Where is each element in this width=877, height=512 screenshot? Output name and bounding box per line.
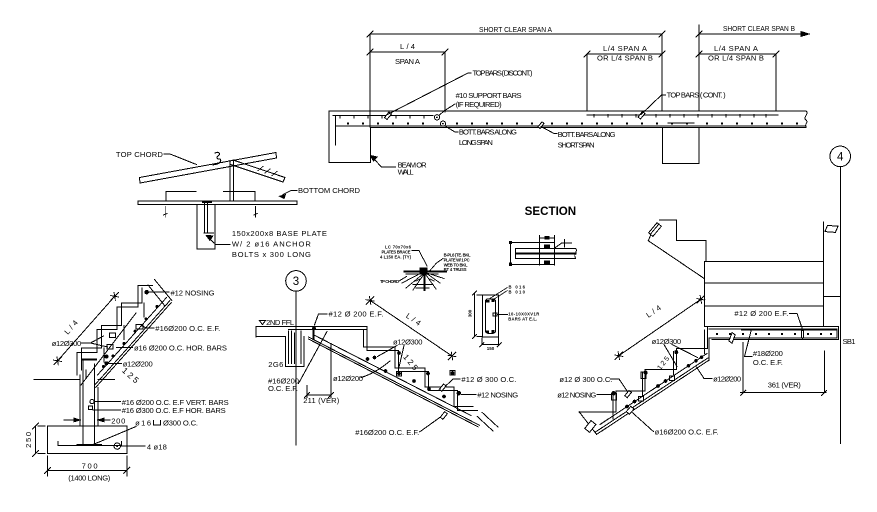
soffit inner: [309, 339, 479, 427]
top bar hook: [313, 327, 315, 338]
footing bottom bars: [58, 442, 122, 446]
svg-text:211 (VER): 211 (VER): [303, 396, 339, 405]
leaders 12-300 right: [664, 345, 698, 367]
svg-text:SHORT CLEAR SPAN B: SHORT CLEAR SPAN B: [723, 24, 795, 33]
svg-text:#16 Ø300 O.C. E.F HOR. BARS: #16 Ø300 O.C. E.F HOR. BARS: [122, 406, 226, 415]
dim 361 extensions: [743, 342, 824, 392]
leader nosing right: [597, 394, 611, 396]
svg-text:#18Ø200: #18Ø200: [753, 349, 783, 358]
nosing dot: [144, 290, 149, 295]
waist bar line: [313, 335, 471, 416]
anchor bolt tick left: [164, 207, 167, 218]
stirrup squares: [397, 372, 402, 377]
soffit outer line: [96, 303, 172, 388]
wall right edge: [823, 222, 825, 326]
leader 12-200: [109, 362, 122, 364]
dim line L/4: [619, 299, 701, 355]
waist bar dots: [366, 356, 455, 399]
waist bar dots: [625, 356, 703, 409]
column verticals: [540, 238, 555, 265]
svg-text:361 (VER): 361 (VER): [768, 381, 801, 390]
MIDDLE_STAIR: [256, 271, 518, 446]
waist bar line: [98, 298, 167, 376]
soffit inner line: [94, 301, 170, 386]
leader 18-200: [745, 331, 753, 357]
svg-text:WALL: WALL: [398, 167, 414, 176]
leader top bars discont: [387, 73, 472, 115]
svg-text:SPAN A: SPAN A: [395, 57, 421, 66]
svg-text:BOTTOM CHORD: BOTTOM CHORD: [298, 186, 361, 195]
slab top bar thick: [742, 329, 836, 331]
soffit outer: [309, 337, 480, 425]
joint small marks: [416, 279, 434, 281]
outer rect: [483, 295, 499, 337]
apex squiggle mark: [213, 152, 221, 165]
inner step zigzag: [363, 330, 473, 407]
svg-text:4 L150 EA. (TY): 4 L150 EA. (TY): [380, 255, 412, 260]
vertical post: [230, 161, 234, 201]
svg-text:L/4: L/4: [644, 303, 662, 319]
leader circle vert bars: [90, 400, 94, 404]
upper flight cut parallelogram: [649, 223, 662, 237]
leader bottom left note: [399, 277, 407, 282]
wall rebar verticals: [83, 360, 95, 445]
svg-text:ø16Ø200 O.C. E.F.: ø16Ø200 O.C. E.F.: [655, 428, 719, 437]
bar note text: [509, 285, 526, 295]
bolt head mark: [203, 201, 211, 203]
leader beam or wall: [374, 159, 396, 167]
member band: [515, 249, 575, 259]
svg-text:#16Ø200 O.C. E.F.: #16Ø200 O.C. E.F.: [155, 324, 220, 333]
level marker triangle: [260, 321, 266, 325]
bottom dim line: [480, 338, 501, 347]
svg-text:4 ø18: 4 ø18: [147, 442, 167, 451]
leader 4-18: [121, 445, 145, 447]
svg-text:TOP BARS ( CONT. ): TOP BARS ( CONT. ): [667, 91, 726, 100]
footing outline: [48, 426, 127, 454]
leader bott bars short: [541, 127, 557, 134]
svg-text:LONG SPAN: LONG SPAN: [459, 138, 493, 147]
svg-text:300: 300: [468, 309, 473, 317]
column strip bottom: [824, 296, 841, 298]
pedestal: [197, 205, 215, 249]
svg-text:#12 NOSING: #12 NOSING: [171, 288, 215, 297]
BEAM_PLAN_DETAIL: [509, 236, 576, 266]
leader from note: [412, 251, 427, 267]
svg-text:L/4: L/4: [400, 42, 415, 51]
extension line x662: [661, 34, 663, 111]
inner tie rounded rect: [485, 299, 495, 333]
note text right: [444, 253, 471, 273]
RIGHT_STAIR: [557, 220, 855, 437]
hatch on right diagonal: [258, 167, 277, 176]
svg-text:TP CHORD: TP CHORD: [380, 279, 399, 284]
svg-text:Ø300 O.C.: Ø300 O.C.: [163, 419, 198, 428]
slab bottom edge: [371, 126, 806, 128]
leader bottom chord: [283, 191, 297, 195]
svg-text:O.C. E.F.: O.C. E.F.: [753, 358, 783, 367]
svg-text:ø12 NOSING: ø12 NOSING: [557, 390, 596, 399]
landing top bar line: [289, 329, 367, 331]
wall left edge: [704, 261, 706, 326]
flight soffit outer: [597, 360, 709, 434]
top chord member: [140, 153, 277, 184]
top dim: [540, 236, 555, 241]
svg-text:ø12Ø300: ø12Ø300: [652, 337, 682, 346]
slab top edge: [329, 110, 806, 112]
member center line thick: [516, 252, 576, 254]
leader top chord: [164, 154, 197, 165]
tie note text: [508, 312, 539, 322]
cut break parallelogram: [585, 421, 596, 433]
dim line L/4 left: [367, 49, 448, 55]
SECTION_TITLE: [525, 206, 577, 218]
leader to top bars: [490, 288, 508, 301]
anchor bolt: [204, 204, 214, 234]
leader square a: [110, 333, 116, 338]
leader from right note: [430, 259, 443, 271]
leader hor bars2: [93, 409, 121, 411]
bottom bar line long span: [336, 125, 807, 127]
splice line over middle support: [668, 122, 694, 124]
dim line L/4 SPAN A middle: [584, 51, 665, 57]
note text top left: [380, 245, 412, 260]
dim line L/4 SPAN A right: [696, 51, 779, 57]
svg-text:#12 NOSING: #12 NOSING: [477, 391, 518, 400]
svg-text:SHORT SPAN: SHORT SPAN: [558, 141, 595, 150]
svg-text:O.C. E.F.: O.C. E.F.: [268, 384, 298, 393]
svg-text:ø12Ø200: ø12Ø200: [123, 359, 153, 368]
step stirrup verticals: [86, 303, 144, 378]
star bottom: [54, 357, 62, 365]
bar cut mark on cont top bars: [638, 112, 645, 120]
leader 16-200 left: [299, 332, 328, 384]
slab downstand: [708, 338, 710, 360]
svg-text:BOTT. BARS ALONG: BOTT. BARS ALONG: [459, 128, 517, 137]
dim line SHORT CLEAR SPAN B: [696, 31, 806, 37]
svg-text:SECTION: SECTION: [525, 206, 577, 218]
svg-text:(IF REQUIRED): (IF REQUIRED): [456, 100, 502, 109]
leader anchor bolts: [208, 237, 230, 245]
step outline: [77, 286, 152, 375]
svg-text:L/4 SPAN A: L/4 SPAN A: [603, 44, 648, 53]
steps outline: [367, 326, 478, 410]
landing slab outline: [705, 326, 839, 339]
slab bottom line: [256, 336, 285, 338]
SLAB_DETAIL: [329, 24, 850, 444]
svg-text:ø12 Ø 300 O.C.: ø12 Ø 300 O.C.: [559, 375, 612, 384]
top bar ticks right: [594, 115, 766, 117]
svg-text:2G6: 2G6: [268, 360, 283, 369]
svg-text:#12 Ø 300 O.C.: #12 Ø 300 O.C.: [461, 375, 516, 384]
svg-text:SHORT CLEAR SPAN A: SHORT CLEAR SPAN A: [479, 25, 553, 34]
dim 700 line: [45, 467, 130, 473]
extension line x776: [775, 54, 777, 111]
svg-text:BT 4 TRUSS: BT 4 TRUSS: [444, 267, 467, 272]
svg-text:BOTT. BARS ALONG: BOTT. BARS ALONG: [558, 130, 616, 139]
svg-text:4: 4: [837, 152, 844, 164]
joint diagonals: [402, 272, 444, 290]
leader square c: [136, 325, 143, 330]
leader 12 300 OC right: [611, 379, 628, 392]
dim 700 extensions: [48, 456, 127, 476]
rebar hook top: [83, 358, 97, 360]
star top: [111, 292, 119, 300]
CONNECTION_DETAIL: [380, 245, 471, 291]
waist bar dots: [102, 305, 159, 368]
leader 12-200 right: [697, 367, 713, 379]
svg-text:L/4: L/4: [62, 318, 79, 336]
leader vert bars: [95, 401, 121, 403]
leader square hor bars: [88, 406, 92, 410]
leader 12 200 EF slab: [790, 313, 803, 329]
inner step zigzag: [82, 288, 143, 370]
svg-text:W/ 2 ø16 ANCHOR: W/ 2 ø16 ANCHOR: [232, 240, 312, 249]
leader 16-200 right: [632, 412, 654, 432]
svg-text:#10 SUPPORT BARS: #10 SUPPORT BARS: [456, 91, 522, 100]
svg-text:ø12Ø200: ø12Ø200: [713, 374, 741, 383]
leader 16-200: [142, 326, 154, 329]
svg-text:200: 200: [111, 416, 125, 425]
bottom chord: [138, 201, 297, 205]
left dim line: [473, 291, 483, 339]
flight steps outline: [579, 326, 707, 412]
svg-text:250: 250: [24, 432, 33, 448]
leader 12-200 mid: [361, 361, 390, 378]
grid break mark: [825, 225, 838, 232]
svg-text:ø16: ø16: [135, 419, 151, 428]
flight soffit inner: [596, 358, 708, 432]
dim 200 arrows: [64, 419, 110, 421]
slab right break: [805, 111, 807, 127]
floor line right of wall: [98, 378, 114, 380]
svg-text:125: 125: [401, 353, 420, 373]
corner dots: [509, 241, 512, 244]
splice parallelogram near slab: [729, 333, 735, 344]
TRUSS_DETAIL: [116, 150, 361, 259]
leader 12-300: [82, 336, 108, 347]
nosing bar rects: [612, 394, 617, 401]
svg-text:2ND FFL: 2ND FFL: [266, 318, 294, 327]
flight inner zigzag: [613, 330, 705, 419]
anchor bolt tick right: [254, 207, 257, 218]
svg-text:ø12Ø200: ø12Ø200: [333, 374, 363, 383]
bar cut on tread right: [625, 391, 632, 398]
svg-text:150: 150: [487, 346, 495, 351]
leader nosing: [462, 393, 477, 395]
svg-text:150x200x8 BASE PLATE: 150x200x8 BASE PLATE: [232, 229, 327, 238]
leader 16-200 bottom: [420, 415, 444, 432]
landing beam: [285, 337, 304, 367]
svg-text:ø12Ø300: ø12Ø300: [52, 339, 81, 348]
flight bottom cut: [579, 412, 596, 435]
joint node blob: [420, 268, 428, 275]
band right break: [575, 249, 577, 259]
dim 361 line: [741, 390, 827, 395]
svg-text:3: 3: [293, 276, 299, 288]
leader 12 200 EF: [315, 314, 328, 325]
slab dots: [716, 333, 832, 335]
bar cut mark on soffit: [440, 412, 447, 420]
top bars continuous line: [587, 114, 778, 116]
flight end cut: [477, 413, 498, 432]
leader nosing: [149, 291, 169, 293]
stirrup squares: [639, 397, 644, 402]
svg-text:#12 Ø 200 E.F.: #12 Ø 200 E.F.: [734, 309, 788, 318]
bar cut mark short span: [538, 122, 544, 129]
grid circle 4: [830, 146, 851, 167]
wall course lines: [705, 283, 824, 306]
floor top line: [256, 326, 367, 337]
flight waist bar line: [600, 354, 707, 425]
leader with plus: [555, 240, 572, 249]
right diagonal member: [231, 160, 286, 182]
dim 250 line: [33, 423, 45, 457]
dim line L/4: [370, 300, 452, 356]
middle support beam: [662, 127, 699, 163]
leader support bars: [440, 104, 456, 115]
leader 12 300 OC: [443, 379, 461, 389]
nosing dot: [457, 391, 461, 395]
svg-text:ø16 Ø200 O.C. HOR. BARS: ø16 Ø200 O.C. HOR. BARS: [134, 344, 227, 353]
dim line SHORT CLEAR SPAN A: [367, 31, 665, 37]
extension line x587: [586, 54, 588, 111]
svg-text:OR L/4 SPAN B: OR L/4 SPAN B: [597, 54, 653, 63]
leader top bars cont: [641, 95, 666, 115]
slab bar ellipse: [801, 330, 803, 338]
leaders 12-300: [378, 346, 405, 370]
leader hor bars: [117, 347, 133, 349]
upper flight steps: [660, 220, 707, 262]
seat plate line: [166, 191, 255, 200]
extension line x699: [698, 25, 700, 111]
dim 211 line: [305, 393, 334, 398]
nosing bar dots: [397, 351, 401, 355]
dim 211 extensions: [307, 344, 331, 398]
top cut lines: [148, 280, 172, 307]
COLUMN_SECTION: [468, 285, 540, 352]
bottom bar circle: [440, 121, 445, 126]
joint gusset vertical: [423, 271, 425, 290]
beam wall left outline: [329, 111, 371, 163]
svg-text:L/4 SPAN A: L/4 SPAN A: [714, 44, 759, 53]
wall right edge: [97, 388, 99, 426]
slab inner rect: [709, 329, 837, 347]
floor line left: [34, 378, 80, 380]
support bar circle: [434, 115, 439, 120]
bar cut mark on top bars: [385, 112, 392, 120]
svg-text:700: 700: [82, 462, 98, 471]
svg-text:OR L/4 SPAN B: OR L/4 SPAN B: [708, 54, 764, 63]
svg-text:BARS AT E.L.: BARS AT E.L.: [508, 316, 537, 321]
wall left edge: [79, 375, 81, 426]
bottom bar bend in wall: [335, 116, 337, 145]
svg-text:#16Ø200 O.C. E.F.: #16Ø200 O.C. E.F.: [355, 428, 419, 437]
dim line L/4: [58, 296, 115, 361]
svg-text:TOP BARS ( DISCONT. ): TOP BARS ( DISCONT. ): [473, 69, 533, 78]
beam outline left: [511, 243, 555, 265]
top bars discontinuous line: [333, 115, 433, 117]
bottom bar dots: [347, 123, 798, 125]
grid circle 3: [286, 271, 307, 292]
leader bott bars long: [445, 126, 458, 132]
top bar ticks left: [340, 116, 424, 118]
grid line 3: [295, 291, 297, 445]
svg-text:(1400 LONG): (1400 LONG): [68, 474, 110, 483]
tie leader square: [493, 313, 497, 316]
corner bars: [486, 300, 489, 303]
upper flight soffit: [648, 236, 704, 279]
inner dim diagonal: [81, 313, 136, 385]
svg-text:B 010: B 010: [509, 290, 526, 295]
wall top: [705, 260, 824, 262]
nosing dots: [611, 391, 615, 395]
svg-text:SB1: SB1: [843, 337, 856, 346]
joint lower horizontals: [413, 285, 433, 289]
svg-text:BOLTS x 300 LONG: BOLTS x 300 LONG: [232, 250, 311, 259]
rebar feet: [78, 444, 102, 446]
svg-text:TOP CHORD: TOP CHORD: [116, 150, 164, 159]
bar cut mark on tread: [439, 384, 446, 391]
soffit bar parallelogram: [626, 406, 634, 414]
LEFT_STAIR: [24, 280, 229, 483]
footing bar circle: [114, 443, 120, 449]
leader U bar: [92, 427, 136, 446]
leader square b: [107, 345, 113, 350]
extension line x445: [444, 52, 446, 112]
beam bars verticals: [289, 331, 302, 364]
top bar dot: [312, 327, 316, 331]
joint horizontal chord: [405, 271, 447, 273]
extension line x370: [369, 34, 371, 127]
svg-text:#12 Ø 200 E.F.: #12 Ø 200 E.F.: [329, 310, 384, 319]
grid line 4: [839, 167, 841, 444]
bar dots pair: [104, 355, 108, 359]
filled squares: [544, 244, 550, 248]
